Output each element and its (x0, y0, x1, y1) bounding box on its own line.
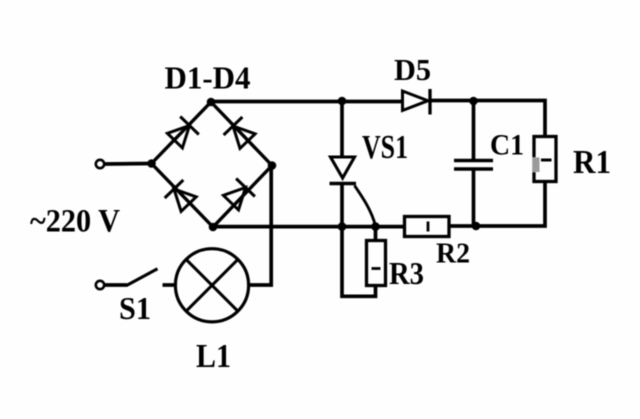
svg-text:L1: L1 (196, 338, 231, 375)
svg-text:S1: S1 (119, 290, 151, 326)
svg-text:R1: R1 (573, 144, 611, 181)
svg-text:C1: C1 (490, 129, 524, 162)
svg-text:D1-D4: D1-D4 (165, 60, 251, 96)
svg-text:D5: D5 (394, 52, 431, 87)
svg-text:R2: R2 (436, 238, 470, 270)
svg-text:VS1: VS1 (362, 129, 408, 166)
svg-text:R3: R3 (389, 255, 424, 291)
svg-text:~220 V: ~220 V (30, 204, 120, 240)
